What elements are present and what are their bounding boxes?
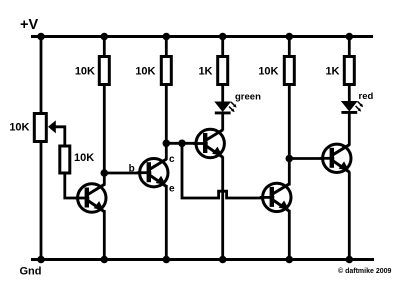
svg-text:10K: 10K [74,152,94,164]
junction: +V rail node 1 [37,33,45,41]
svg-text:© daftmike 2009: © daftmike 2009 [338,267,392,275]
junction: Gnd rail node 2 [101,256,109,264]
resistor R3 10K body [161,57,171,85]
potentiometer wiper arrow [48,120,56,133]
wire: R4 to green LED [221,84,224,104]
wire: R1 bottom to Q1 collector [103,84,106,186]
transistor Q2 [137,159,168,187]
resistor R5 10K body [284,57,294,85]
svg-text:e: e [169,183,175,194]
junction: +V rail node 3 [163,33,171,41]
wire: Q3 emitter to Gnd [221,157,224,260]
junction: node at Q3 base branch [178,140,186,148]
wire: wiper to R2 [55,127,65,147]
transistor Q5 [320,144,351,172]
resistor R4 1K body [218,57,228,85]
svg-text:10K: 10K [75,66,95,78]
junction: node at R1/Q1 collector [101,169,109,177]
junction: Gnd rail node 3 [163,256,171,264]
resistor R1 10K body [99,57,109,85]
wire: Q2 collector node to Q3 base [166,142,197,145]
wire: R6 to red LED [348,84,351,103]
svg-text:c: c [169,154,175,165]
wire: green LED to Q3 collector [221,112,224,131]
resistor R2 10K body (wiper divider) [60,146,70,173]
junction: +V rail node 6 [346,33,354,41]
wire: +V to R6 [348,37,351,58]
wire: +V to potentiometer top [40,37,43,114]
transistor Q4 [260,183,291,211]
potentiometer VR1 body [34,114,46,142]
transistor Q1 [75,184,106,212]
junction: +V rail node 4 [219,33,227,41]
junction: Gnd rail node 6 [346,256,354,264]
svg-text:1K: 1K [325,66,339,78]
svg-text:green: green [235,92,261,103]
wire: Q4 collector node to Q5 base [289,157,323,160]
wire: Q1 collector junction to Q2 base [104,172,140,175]
wire: Q2 emitter to Gnd [165,185,168,260]
wire: +V to R1 [103,37,106,58]
svg-text:10K: 10K [9,122,29,134]
wire: +V to R3 [165,37,168,58]
wire: potentiometer bottom to Gnd [40,142,43,260]
junction: node at R5/Q4 collector [286,155,294,163]
+V rail [31,35,373,38]
junction: Gnd rail node 1 [37,256,45,264]
svg-text:red: red [359,91,374,102]
junction: node at R3/Q2 collector [163,140,171,148]
wire: +V to R5 [288,37,291,58]
wire: R5 bottom to Q4 collector [288,84,291,186]
junction: +V rail node 5 [286,33,294,41]
Gnd rail [31,258,374,261]
wire: Q1 emitter to Gnd [103,210,106,260]
wire: R2 bottom to Q1 base [65,172,80,198]
svg-text:Gnd: Gnd [20,266,42,278]
wire: +V to R4 [221,37,224,58]
wire: Q4 emitter to Gnd [288,210,291,260]
junction: Gnd rail node 4 [219,256,227,264]
transistor Q3 [193,129,224,157]
svg-text:10K: 10K [258,66,278,78]
svg-text:+V: +V [20,17,38,33]
wire: R3 bottom to Q2 collector [165,84,168,160]
svg-text:b: b [129,163,135,174]
junction: +V rail node 2 [101,33,109,41]
LED D1 green [215,102,237,113]
resistor R6 1K body [344,57,354,85]
wire: red LED to Q5 collector [348,111,351,146]
junction: Gnd rail node 5 [286,256,294,264]
LED D2 red [341,101,363,112]
wire: branch down to Q4 base (with hop over Q3 emitter) [182,143,264,198]
wire: Q5 emitter to Gnd [348,172,351,260]
svg-text:10K: 10K [135,66,155,78]
svg-text:1K: 1K [198,66,212,78]
